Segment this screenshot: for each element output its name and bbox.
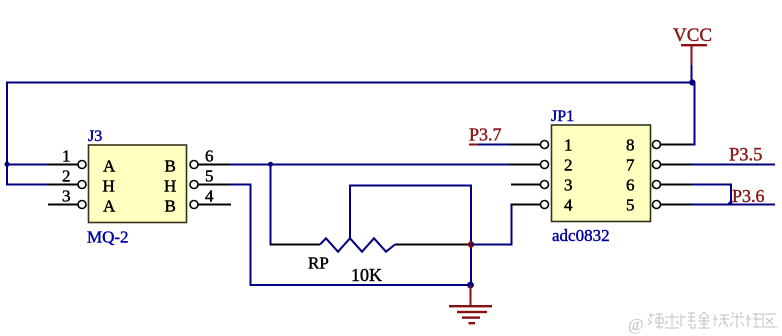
svg-text:A: A — [103, 197, 116, 216]
watermark — [628, 312, 777, 334]
svg-text:8: 8 — [626, 136, 635, 155]
pin 7 of JP1 — [653, 161, 692, 169]
junction left rail pin1 — [5, 162, 10, 167]
ground — [449, 285, 492, 324]
connector J3 body — [89, 145, 187, 223]
pin 3 of JP1 — [511, 181, 549, 189]
wire resistor to JP1 pin4 — [471, 205, 541, 245]
svg-text:VCC: VCC — [673, 25, 712, 46]
svg-text:5: 5 — [205, 167, 214, 186]
svg-text:5: 5 — [626, 196, 635, 215]
svg-text:J3: J3 — [88, 128, 102, 145]
svg-text:A: A — [103, 157, 116, 176]
svg-text:P3.7: P3.7 — [469, 125, 502, 145]
resistor RP right lead — [395, 244, 471, 246]
pin 4 of J3 — [190, 187, 231, 209]
pin 1 of JP1 — [510, 141, 549, 149]
svg-text:3: 3 — [564, 176, 573, 195]
wire junction down to resistor — [270, 165, 272, 246]
svg-text:2: 2 — [62, 167, 71, 186]
pin 4 of JP1 — [511, 201, 549, 209]
pin 2 of J3 — [48, 167, 86, 189]
svg-text:10K: 10K — [351, 265, 382, 285]
svg-text:P3.6: P3.6 — [732, 186, 765, 206]
wire JP1 pin5 out — [691, 204, 775, 206]
wire JP1 pin7 out — [691, 164, 775, 166]
svg-text:RP: RP — [308, 254, 329, 273]
wire top rail — [6, 82, 696, 84]
pin 8 of JP1 — [653, 141, 692, 149]
svg-text:B: B — [165, 157, 176, 176]
svg-text:4: 4 — [205, 187, 214, 206]
wire P3.7 tick — [469, 144, 478, 146]
connector JP1 body — [552, 125, 651, 222]
svg-text:6: 6 — [205, 147, 214, 166]
junction ground node — [467, 282, 474, 289]
svg-text:MQ-2: MQ-2 — [87, 228, 129, 247]
wire to J3 pin1 — [7, 164, 48, 166]
junction pin6 wire — [268, 162, 273, 167]
wire JP1 pin8 to VCC rail — [691, 83, 695, 145]
svg-text:@: @ — [628, 315, 644, 334]
pin 6 of J3 — [190, 147, 230, 169]
svg-text:B: B — [165, 197, 176, 216]
svg-text:H: H — [103, 177, 115, 196]
svg-text:7: 7 — [626, 156, 635, 175]
wire J3 pin6 to JP1 pin2 — [230, 164, 541, 166]
junction pin6-pin5 corner — [726, 199, 733, 206]
svg-text:3: 3 — [62, 187, 71, 206]
resistor RP left lead — [271, 244, 321, 246]
power symbol VCC — [673, 25, 712, 65]
junction wiper-resistor — [468, 241, 474, 247]
svg-text:H: H — [164, 177, 176, 196]
svg-text:P3.5: P3.5 — [729, 146, 762, 166]
wire J3 pin5 route — [230, 185, 471, 286]
pin 1 of J3 — [48, 147, 86, 169]
resistor RP zigzag — [320, 238, 395, 251]
svg-text:JP1: JP1 — [551, 108, 574, 125]
wire VCC stem — [691, 65, 693, 84]
wire to J3 pin2 — [6, 184, 48, 186]
svg-text:1: 1 — [62, 147, 71, 166]
pin 2 of JP1 — [510, 161, 549, 169]
pin 6 of JP1 — [653, 181, 692, 189]
svg-text:6: 6 — [626, 176, 635, 195]
pin 3 of J3 — [48, 187, 86, 209]
svg-text:2: 2 — [564, 156, 573, 175]
wire P3.7 to JP1 pin1 — [478, 144, 510, 146]
wire JP1 pin6 step — [691, 185, 731, 205]
pin 5 of J3 — [190, 167, 230, 189]
svg-text:4: 4 — [564, 196, 573, 215]
wire left vertical — [6, 82, 8, 186]
svg-text:1: 1 — [564, 136, 573, 155]
junction VCC T — [689, 79, 695, 85]
pin 5 of JP1 — [653, 201, 692, 209]
wire wiper bracket — [350, 186, 471, 286]
svg-text:adc0832: adc0832 — [552, 226, 610, 245]
